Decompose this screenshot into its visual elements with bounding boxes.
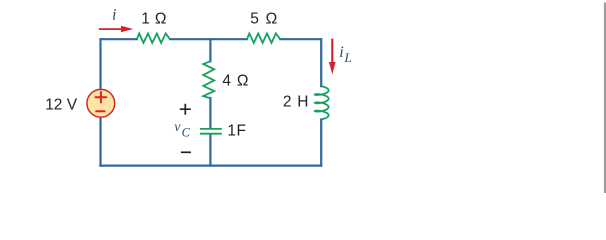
svg-text:i: i (339, 44, 343, 61)
svg-text:5 Ω: 5 Ω (250, 10, 278, 27)
svg-text:4 Ω: 4 Ω (222, 72, 249, 89)
svg-text:i: i (112, 6, 116, 23)
svg-text:1F: 1F (227, 123, 246, 140)
svg-text:1 Ω: 1 Ω (141, 10, 167, 27)
svg-text:v: v (174, 120, 181, 135)
svg-text:C: C (182, 126, 191, 140)
svg-text:2 H: 2 H (283, 94, 309, 111)
svg-text:12 V: 12 V (45, 97, 78, 114)
svg-text:L: L (344, 50, 352, 65)
